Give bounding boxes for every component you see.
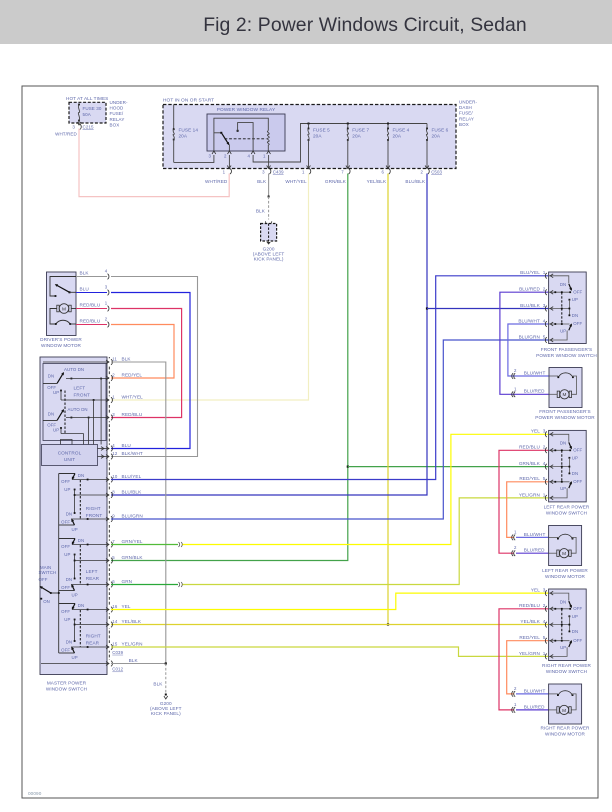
svg-text:RIGHT REAR POWER: RIGHT REAR POWER [541,726,591,731]
svg-text:M: M [562,392,566,397]
svg-text:RIGHT: RIGHT [86,506,101,511]
svg-text:BLK: BLK [122,356,132,361]
master switch supply bus [58,474,60,654]
svg-text:C012: C012 [112,667,123,672]
svg-text:RED/YEL: RED/YEL [122,372,143,377]
svg-text:MASTER POWER: MASTER POWER [47,681,87,686]
svg-text:OFF: OFF [39,577,48,582]
wire BLU/GRN passenger pin5 to master pin9 [111,340,549,519]
svg-text:OFF: OFF [61,609,70,614]
svg-text:RIGHT: RIGHT [86,634,101,639]
svg-text:CONTROL: CONTROL [58,451,82,456]
master switch section RIGHT REAR [59,603,75,605]
svg-text:UNDER-: UNDER- [459,100,478,105]
svg-text:YEL: YEL [122,604,131,609]
wire BLK bottom row [111,663,166,665]
switch pin connectors [550,432,553,436]
svg-text:UP: UP [572,297,578,302]
svg-text:LEFT: LEFT [74,386,86,391]
svg-text:OFF: OFF [61,648,70,653]
svg-text:C503: C503 [431,169,442,174]
left rear power window motor [549,526,582,566]
driver motor bottom jumper [50,309,57,325]
svg-text:DASH: DASH [459,105,472,110]
motor symbol [549,536,558,538]
svg-text:20A: 20A [393,134,402,139]
front passenger's power window switch [549,272,587,344]
svg-text:KICK PANEL): KICK PANEL) [254,257,284,262]
wire relay pin2 to WHT/RED [228,155,230,169]
svg-text:UP: UP [64,617,70,622]
driver motor pigtail stubs and connectors [76,276,107,278]
svg-text:OFF: OFF [573,448,582,453]
fuse 30 [78,104,80,106]
svg-text:BOX: BOX [459,122,469,127]
svg-text:REAR: REAR [86,576,100,581]
svg-text:LEFT: LEFT [86,569,98,574]
fuse 5 [308,124,310,129]
svg-text:YEL/BLK 4: YEL/BLK 4 [520,619,545,624]
svg-text:BLU/WHT: BLU/WHT [524,688,546,693]
svg-text:FRONT PASSENGER'S: FRONT PASSENGER'S [539,409,590,414]
svg-text:AUTO DN: AUTO DN [64,367,84,372]
svg-text:YEL/GRN: YEL/GRN [122,641,143,646]
svg-text:WINDOW SWITCH: WINDOW SWITCH [46,686,87,691]
control unit output pins [98,448,110,450]
connector row below under-dash box [227,166,231,169]
wire RED/BLU right rear pin2 to motor [499,609,549,710]
svg-text:DN: DN [78,538,84,543]
motor symbol [549,693,558,695]
svg-text:WINDOW MOTOR: WINDOW MOTOR [545,732,586,737]
svg-text:ON: ON [43,599,50,604]
svg-text:UNIT: UNIT [64,457,75,462]
svg-text:WHT/RED: WHT/RED [205,179,228,184]
svg-text:WINDOW SWITCH: WINDOW SWITCH [546,511,587,516]
svg-text:DN: DN [66,640,72,645]
svg-text:WHT/RED: WHT/RED [55,132,77,137]
svg-text:BLU: BLU [80,287,89,292]
svg-text:FUSE 4: FUSE 4 [393,128,410,133]
pin 3 connector C215 [77,122,81,125]
svg-text:GRN/BLK: GRN/BLK [122,555,144,560]
svg-text:UNDER-: UNDER- [110,100,129,105]
wire relay pin1 to BLK [268,155,270,169]
svg-text:YEL/GRN 1: YEL/GRN 1 [519,492,546,497]
svg-text:POWER WINDOW SWITCH: POWER WINDOW SWITCH [536,353,597,358]
relay coil [267,131,269,145]
svg-text:WINDOW MOTOR: WINDOW MOTOR [545,574,586,579]
svg-text:BLK: BLK [257,179,267,184]
wire BLU driver motor to master pin4 [111,293,190,449]
svg-text:50A: 50A [83,112,91,117]
svg-text:BLK: BLK [153,682,163,687]
svg-text:UP: UP [64,487,70,492]
driver motor M1 [59,304,69,314]
svg-text:UP: UP [72,527,78,532]
svg-text:BLK: BLK [129,658,139,663]
svg-text:C439: C439 [273,169,284,174]
relay pin4 contact branch [237,130,239,132]
wire RED/BLU left rear pin2 to motor [499,450,549,553]
svg-text:OFF: OFF [573,638,582,643]
svg-text:20A: 20A [432,134,441,139]
svg-text:GRN/BLK: GRN/BLK [325,179,347,184]
svg-text:GRN/BLK 4: GRN/BLK 4 [519,461,546,466]
wire GRN/BLK fuse7 to master pin5 [111,174,348,561]
wire RED/YEL right rear pin5 to motor [507,641,549,694]
master power window switch box [40,357,107,675]
switch internals [549,434,569,442]
svg-text:12: 12 [112,451,118,456]
svg-text:BLK/WHT: BLK/WHT [122,451,143,456]
svg-text:RED/BLU 2: RED/BLU 2 [519,445,546,450]
svg-text:11: 11 [112,356,117,361]
master pin 11 internal wire [43,361,109,363]
svg-text:FUSE 7: FUSE 7 [352,128,369,133]
svg-text:WHT/YEL: WHT/YEL [285,179,307,184]
svg-text:BLU/BLK: BLU/BLK [405,179,426,184]
left front switch row wires [71,378,73,380]
svg-text:FUSE 6: FUSE 6 [432,128,449,133]
svg-text:RED/BLU 2: RED/BLU 2 [519,603,546,608]
svg-text:DN: DN [78,603,84,608]
driver's power window motor box [47,272,77,336]
svg-text:3: 3 [72,124,75,129]
svg-text:YEL/BLK: YEL/BLK [367,179,387,184]
svg-text:OFF: OFF [573,479,582,484]
wire GRN/BLK branch to left rear switch pin4 [348,466,549,468]
right rear power window switch [549,589,587,661]
svg-text:BLU/WHT 4: BLU/WHT 4 [518,318,545,323]
relay box [207,114,285,151]
svg-text:M: M [562,551,566,556]
svg-text:RED/YEL 5: RED/YEL 5 [519,635,545,640]
svg-text:HOOD: HOOD [110,106,125,111]
svg-text:UP: UP [572,614,578,619]
svg-text:20A: 20A [179,134,188,139]
svg-text:BLU/RED: BLU/RED [524,389,545,394]
svg-text:OFF: OFF [61,544,70,549]
svg-text:DN: DN [572,313,578,318]
svg-text:UP: UP [572,455,578,460]
motor pin connectors [514,691,515,697]
svg-text:YEL/BLK: YEL/BLK [122,619,142,624]
title bar [0,0,612,44]
wire YEL master pin16 to right rear pin3 [111,593,549,609]
wire GRN/YEL master pin7 to left rear pin3 [111,544,178,546]
svg-text:OFF: OFF [61,520,70,525]
wire BLU/BLK branch to passenger switch pin3 [427,308,549,310]
svg-text:BLK: BLK [80,271,90,276]
svg-text:BLK: BLK [256,209,266,214]
motor pin connectors [514,373,515,379]
master switch section RIGHT FRONT [59,473,75,475]
svg-text:UP: UP [560,486,566,491]
svg-text:BLU/YEL: BLU/YEL [122,474,142,479]
svg-text:RED/BLU: RED/BLU [122,412,143,417]
svg-text:RIGHT REAR POWER: RIGHT REAR POWER [542,663,592,668]
svg-text:POWER WINDOW MOTOR: POWER WINDOW MOTOR [535,415,595,420]
svg-text:WINDOW SWITCH: WINDOW SWITCH [546,669,587,674]
svg-text:BLU/WHT: BLU/WHT [524,370,546,375]
svg-text:UP: UP [560,328,566,333]
wire BLU/WHT stub right rear motor [516,693,549,695]
svg-text:DN: DN [66,577,72,582]
svg-text:DN: DN [66,512,72,517]
svg-text:RED/BLU: RED/BLU [80,319,101,324]
svg-text:RELAY: RELAY [110,117,125,122]
svg-text:BLU/BLK 3: BLU/BLK 3 [520,303,546,308]
fuse 7 [347,124,349,129]
svg-text:WHT/YEL: WHT/YEL [122,394,144,399]
svg-text:20A: 20A [352,134,361,139]
svg-text:GRN: GRN [122,579,133,584]
svg-text:15: 15 [112,641,118,646]
svg-text:SWITCH: SWITCH [39,570,57,575]
svg-text:UP: UP [53,390,59,395]
relay pins 3 2 4 1 [212,151,216,154]
wire GRN master pin6 to left rear pin1 [111,584,178,586]
wire YEL/GRN master pin15 to right rear pin1 [111,647,549,656]
switch internals [549,593,569,601]
svg-text:16: 16 [112,604,118,609]
svg-text:LEFT REAR POWER: LEFT REAR POWER [544,505,590,510]
wire WHT/RED from fuse 30 to relay [79,129,229,197]
svg-text:RED/BLU: RED/BLU [80,303,101,308]
svg-text:M: M [562,708,566,713]
svg-text:UP: UP [72,593,78,598]
svg-text:DN: DN [572,629,578,634]
svg-text:BLU/RED: BLU/RED [524,704,545,709]
svg-text:BOX: BOX [110,122,120,127]
front passenger's power window motor [549,368,582,408]
svg-text:BLU/WHT: BLU/WHT [524,532,546,537]
left front mechanical link [64,391,66,434]
wire BLU/BLK fuse6 to master pin8 [111,174,427,496]
svg-text:M: M [62,306,66,312]
wire BLK driver motor to master pin12 [111,277,198,457]
under-dash fuse/relay box [163,105,456,169]
svg-text:HOT AT ALL TIMES: HOT AT ALL TIMES [66,96,108,101]
svg-text:BLU/YEL 1: BLU/YEL 1 [520,270,546,275]
ground G200 box [261,224,277,242]
wire BLK master pin11 to ground [111,362,166,664]
right rear power window motor [549,684,582,724]
svg-text:DN: DN [560,441,566,446]
svg-text:BLU/RED: BLU/RED [524,548,545,553]
svg-text:OFF: OFF [61,585,70,590]
svg-text:DN: DN [560,282,566,287]
junction BLU/BLK [426,307,428,309]
svg-text:POWER WINDOW RELAY: POWER WINDOW RELAY [217,107,276,113]
svg-text:FUSE 5: FUSE 5 [313,128,330,133]
wire YEL/BLK master pin14 to right rear switch pin4 [111,624,549,626]
master switch section LEFT REAR [59,538,75,540]
switch internals [549,276,569,284]
svg-text:OFF: OFF [573,321,582,326]
svg-text:AUTO DN: AUTO DN [68,407,88,412]
svg-text:WINDOW MOTOR: WINDOW MOTOR [41,343,82,348]
svg-text:KICK PANEL): KICK PANEL) [151,711,181,716]
fuse 6 [426,124,428,129]
wire RED/YEL left rear pin5 to motor [507,482,549,538]
svg-text:14: 14 [112,619,118,624]
svg-text:00090: 00090 [28,791,42,796]
svg-text:BLU/GRN 5: BLU/GRN 5 [519,334,546,339]
svg-text:UP: UP [72,655,78,660]
relay switch contact [214,118,268,151]
wire RED/BLU driver motor to master pin3 [111,309,182,418]
svg-text:C039: C039 [112,650,123,655]
svg-text:C215: C215 [83,124,95,129]
svg-text:DN: DN [78,473,84,478]
wire relay pin4 to fuse bus [253,124,427,163]
wire BLU/RED passenger pin2 to motor [500,292,549,394]
svg-text:OFF: OFF [573,606,582,611]
svg-text:YEL 3: YEL 3 [531,588,546,593]
ground G200 connector [265,221,271,224]
left rear power window switch [549,430,587,502]
svg-text:UP: UP [560,645,566,650]
driver motor switch [50,277,76,297]
svg-text:DN: DN [572,471,578,476]
master switch BLK pin [109,660,111,667]
svg-text:FUSE 30: FUSE 30 [83,106,102,111]
svg-text:FUSE 14: FUSE 14 [179,128,199,133]
relay mechanical link [225,138,267,140]
svg-text:OFF: OFF [573,289,582,294]
svg-text:GRN/YEL: GRN/YEL [122,539,143,544]
svg-text:YEL/GRN 1: YEL/GRN 1 [519,651,546,656]
svg-text:FRONT PASSENGER'S: FRONT PASSENGER'S [541,347,592,352]
switch pin connectors [550,591,553,595]
svg-text:LEFT REAR POWER: LEFT REAR POWER [542,568,588,573]
svg-text:BLU/RED 2: BLU/RED 2 [519,287,546,292]
svg-text:UP: UP [53,428,59,433]
svg-text:DN: DN [48,412,54,417]
master switch pins [109,358,111,365]
under-hood fuse/relay box (fuse 30) [69,102,106,123]
svg-text:UP: UP [64,552,70,557]
svg-text:RED/YEL 5: RED/YEL 5 [519,476,545,481]
svg-text:FRONT: FRONT [86,513,103,518]
svg-text:RELAY: RELAY [459,116,474,121]
svg-text:Fig 2: Power Windows Circuit,: Fig 2: Power Windows Circuit, Sedan [203,14,527,36]
svg-text:HOT IN ON OR START: HOT IN ON OR START [163,98,214,104]
up-link symbol [61,440,73,445]
junction dots on fuse bus [308,123,310,125]
motor pin connectors [514,535,515,541]
control unit [42,445,98,466]
svg-text:BLU/GRN: BLU/GRN [122,513,143,518]
wire BLK relay to G200 [268,174,270,197]
junction GRN/BLK [347,466,349,468]
svg-text:OFF: OFF [61,479,70,484]
master switch BLK internal wire [41,663,109,665]
fuse 4 [387,124,389,129]
svg-text:10: 10 [112,474,118,479]
junction YEL/BLK [387,623,389,625]
svg-text:FUSE/: FUSE/ [459,111,473,116]
svg-text:DN: DN [560,599,566,604]
wire BLU/RED stub left rear motor [516,552,549,554]
wire RED/YEL driver motor to master pin2 [111,325,174,379]
wire BLU/YEL passenger pin1 to master pin10 [111,276,549,480]
svg-text:REAR: REAR [86,641,100,646]
svg-text:BLU: BLU [122,443,131,448]
svg-text:FRONT: FRONT [74,393,91,398]
switch pin connectors [550,274,553,278]
left front inner box [43,364,106,441]
wire BLU/RED stub right rear motor [516,709,549,711]
svg-text:20A: 20A [313,134,322,139]
svg-text:DRIVER'S POWER: DRIVER'S POWER [40,337,82,342]
wire WHT/YEL fuse5 to master pin1 [111,174,309,401]
wire fuse14 to relay pin 3 [174,155,214,162]
svg-text:YEL 3: YEL 3 [531,429,546,434]
wire BLU/WHT stub left rear motor [516,536,549,538]
svg-text:BLU/BLK: BLU/BLK [122,489,143,494]
svg-text:DN: DN [48,374,54,379]
wire BLU/WHT passenger pin4 to motor [508,324,549,376]
ground G200 (master switch) [165,694,167,696]
motor symbol [549,375,558,377]
svg-text:FUSE/: FUSE/ [110,111,124,116]
fuse 14 [173,105,175,130]
master switch connector dashed line C039/C012 [108,357,110,668]
wire YEL/BLK fuse4 to junction [387,174,389,625]
